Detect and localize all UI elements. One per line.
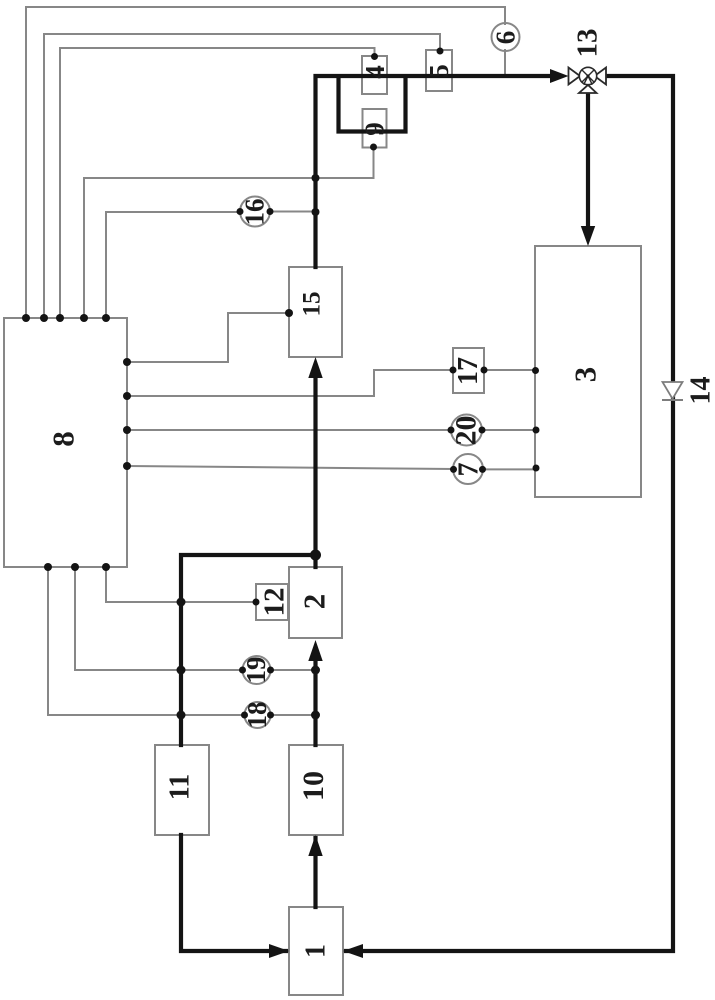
svg-text:4: 4 bbox=[360, 65, 390, 79]
valve 13 bottom triangle bbox=[579, 85, 597, 93]
svg-text:7: 7 bbox=[454, 463, 485, 477]
wire: circle 7 to box 3 left bbox=[483, 468, 537, 470]
dots at box 17 edges bbox=[450, 367, 488, 374]
dots at circle 19 rim bbox=[239, 667, 274, 674]
dots at circle 16 rim bbox=[237, 208, 274, 215]
box 11 bbox=[155, 745, 209, 835]
arrowhead into valve 13 bbox=[550, 69, 569, 83]
svg-text:17: 17 bbox=[453, 357, 484, 385]
junction dots on box 8 top edge bbox=[22, 314, 110, 322]
pipe: box 15 top up, corner, right to valve arrow bbox=[316, 76, 553, 267]
valve 13 ball circle bbox=[579, 67, 596, 84]
valve 13 right triangle bbox=[595, 68, 607, 85]
svg-text:20: 20 bbox=[450, 416, 483, 446]
arrowhead into box 1 right edge bbox=[343, 944, 363, 958]
pipe: valve right, down right side, to box 1 right arrow bbox=[346, 76, 673, 951]
junction dots on main pipe taps bbox=[311, 174, 320, 720]
svg-text:16: 16 bbox=[240, 199, 270, 226]
check valve 14 triangle bbox=[663, 382, 683, 399]
box 2 bbox=[289, 567, 342, 638]
wire: sensor line 5 from box 8 top to circle 16 bbox=[106, 212, 240, 318]
svg-text:2: 2 bbox=[297, 594, 332, 610]
dots at circle 7 rim bbox=[450, 466, 486, 473]
svg-text:18: 18 bbox=[242, 702, 272, 729]
wire: circle 19 to pipe tap bbox=[271, 669, 316, 671]
wire: circle 6 to pipe tap bbox=[504, 50, 506, 76]
wire: box 8 right to circle 20 bbox=[127, 429, 451, 431]
dots at circle 18 rim bbox=[241, 712, 274, 719]
svg-text:19: 19 bbox=[241, 657, 271, 684]
wire: sensor bus line 4 from box 8 top to box 9 bottom via pipe tap bbox=[84, 147, 374, 318]
svg-text:1: 1 bbox=[301, 944, 332, 958]
junction dots on box 8 bottom edge bbox=[44, 563, 110, 571]
box 12 bbox=[256, 584, 288, 620]
wire: sensor bus line 1 from box 8 top to circle 6 bbox=[26, 7, 505, 318]
box 8 bbox=[4, 318, 127, 567]
svg-text:12: 12 bbox=[259, 588, 291, 617]
pipe: branch from junction left and down through box 11 to box 1 left arrow bbox=[181, 555, 313, 951]
pipe: box 2 top up through junction to box 15 bottom arrow bbox=[313, 374, 317, 567]
wire: box 8 bottom to box 12 bbox=[106, 567, 256, 602]
dot at box 12 left edge bbox=[253, 599, 260, 606]
pipe: box 1 top up to box 10 bottom arrow bbox=[313, 838, 317, 907]
svg-text:8: 8 bbox=[46, 431, 81, 447]
svg-text:9: 9 bbox=[360, 122, 390, 136]
box 3 bbox=[535, 246, 641, 497]
wire: box 8 right to box 15 left bbox=[127, 313, 289, 362]
box 17 bbox=[453, 348, 484, 393]
circle 16 bbox=[240, 197, 270, 227]
junction dots on box 8 right edge bbox=[123, 358, 131, 470]
circle 6 bbox=[492, 23, 520, 51]
box 15 bbox=[289, 267, 342, 357]
wire: sensor bus line 2 from box 8 top to box 5 top bbox=[44, 34, 440, 318]
wire: circle 18 to pipe tap bbox=[271, 714, 316, 716]
wire: box 8 bottom to circle 19 bbox=[75, 567, 243, 670]
pipe: bypass loop through box 9 bbox=[339, 77, 406, 132]
wire: box 8 right to box 17 left bbox=[127, 370, 453, 396]
wire: circle 16 to pipe tap bbox=[270, 211, 316, 213]
arrowhead into box 10 bbox=[308, 835, 322, 856]
dots at circle 20 rim bbox=[448, 427, 486, 434]
svg-text:11: 11 bbox=[165, 774, 196, 800]
dot at box 5 top edge bbox=[437, 48, 444, 55]
wire: circle 20 to box 3 left bbox=[482, 429, 536, 431]
arrowhead into box 15 bbox=[308, 357, 322, 378]
box 4 bbox=[362, 56, 387, 94]
box 9 bbox=[363, 109, 387, 148]
svg-text:3: 3 bbox=[568, 367, 603, 383]
dot at box 4 top edge bbox=[371, 53, 378, 60]
box 1 bbox=[289, 907, 343, 995]
arrowhead into box 1 left edge bbox=[269, 944, 289, 958]
svg-text:13: 13 bbox=[572, 29, 604, 58]
wire: box 8 right to circle 7 bbox=[127, 466, 454, 469]
circle 20 bbox=[451, 415, 482, 446]
junction dots on left branch pipe bbox=[177, 598, 186, 720]
pipe: box 10 top up to box 2 bottom arrow bbox=[313, 661, 317, 745]
valve 13 cross lines bbox=[582, 70, 594, 84]
box 5 bbox=[426, 50, 452, 91]
circle 19 bbox=[243, 656, 271, 684]
arrowhead into box 2 bbox=[308, 640, 322, 661]
svg-text:15: 15 bbox=[299, 292, 326, 317]
box 10 bbox=[289, 745, 343, 835]
junction dot at pipe branch node bbox=[310, 550, 321, 561]
svg-text:10: 10 bbox=[297, 771, 330, 801]
circle 18 bbox=[245, 702, 271, 728]
svg-text:6: 6 bbox=[491, 31, 521, 45]
svg-text:14: 14 bbox=[686, 377, 715, 405]
dot at box 15 left edge bbox=[285, 309, 293, 317]
svg-text:5: 5 bbox=[424, 64, 454, 78]
valve 13 left triangle bbox=[569, 68, 581, 85]
circle 7 bbox=[453, 454, 483, 484]
wire: sensor bus line 3 from box 8 top to box 4 top bbox=[60, 48, 375, 318]
wire: box 8 bottom to circle 18 bbox=[48, 567, 245, 715]
dot at box 9 bottom edge bbox=[370, 144, 377, 151]
dots at box 3 left edge bbox=[532, 367, 540, 472]
arrowhead into box 3 top bbox=[581, 226, 595, 246]
wire: box 17 right to box 3 left bbox=[484, 369, 535, 371]
pipe: valve bottom port down to box 3 arrow bbox=[586, 92, 590, 229]
